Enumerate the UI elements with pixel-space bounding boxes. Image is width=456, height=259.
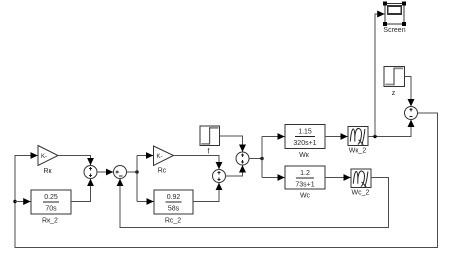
svg-text:Screen: Screen — [383, 27, 405, 34]
sum 2 — [213, 170, 226, 183]
svg-text:z: z — [392, 90, 396, 97]
svg-text:0.25: 0.25 — [44, 194, 58, 201]
wire Wk_2 to sum3 bottom — [368, 120, 411, 137]
svg-text:73s+1: 73s+1 — [295, 182, 314, 189]
wire branch vertical — [136, 156, 138, 202]
wire branch to Wk input — [262, 136, 285, 138]
wire sum2 to sum1 bottom — [226, 165, 243, 176]
svg-text:320s+1: 320s+1 — [293, 140, 316, 147]
transfer function Wc — [285, 166, 325, 200]
svg-text:Rс: Rс — [158, 168, 167, 175]
svg-text:Wс_2: Wс_2 — [352, 190, 370, 197]
wire junction to Rk_2 input — [15, 201, 31, 203]
wire Wc to Wc_2 — [325, 177, 351, 179]
svg-text:Rс_2: Rс_2 — [165, 218, 181, 225]
node branch Wk/Wc — [260, 157, 263, 160]
wire sum3 output to outer feedback loop into Rk — [15, 113, 438, 248]
sum B — [114, 166, 127, 179]
step source z — [384, 67, 405, 98]
wire sumA to sumB — [97, 171, 113, 173]
gain Rc — [154, 146, 174, 175]
svg-text:58s: 58s — [168, 206, 180, 213]
svg-text:K-: K- — [157, 154, 163, 160]
svg-text:Rк_2: Rк_2 — [42, 218, 58, 225]
wire Rc_2 to sum2 bottom — [193, 183, 219, 202]
wire Wc_2 to sumB bottom (inner feedback) — [120, 178, 389, 228]
wire Rk_2 to sumA bottom — [71, 179, 91, 202]
svg-text:f: f — [208, 149, 210, 156]
wire z to sum3 top — [405, 77, 411, 107]
node branch to Screen — [373, 135, 376, 138]
sum 1 — [236, 152, 249, 165]
wire branch to Wc input — [262, 177, 285, 179]
svg-text:Rк: Rк — [43, 168, 52, 175]
wire Rk to sumA top — [58, 156, 91, 166]
step source f — [200, 126, 220, 156]
sum A — [84, 166, 97, 179]
wire branch up to Screen — [375, 14, 385, 137]
transfer function Wk — [285, 125, 325, 160]
svg-text:1.2: 1.2 — [300, 170, 310, 177]
node branch Rc/Rc_2 — [135, 170, 138, 173]
wire branch to Rc input — [137, 155, 153, 157]
transfer function Rk_2 — [31, 190, 71, 225]
transfer function Rc_2 — [154, 190, 193, 225]
signal block Wk_2 — [348, 127, 368, 155]
wire sum1 output to branch — [249, 158, 262, 160]
svg-text:Wк: Wк — [299, 152, 310, 159]
sum 3 — [405, 107, 418, 120]
node junction on left feedback — [13, 200, 16, 203]
svg-text:1.15: 1.15 — [298, 129, 312, 136]
gain Rk — [38, 146, 58, 176]
wire Rc to sum2 top — [174, 156, 220, 170]
wire branch vertical Wk/Wc — [261, 137, 263, 178]
wire branch to Rc_2 input — [137, 201, 154, 203]
wire Wk to Wk_2 — [325, 136, 348, 138]
signal block Wc_2 — [351, 169, 371, 197]
svg-text:70s: 70s — [45, 206, 57, 213]
wire sumB output to branch — [127, 171, 137, 173]
svg-text:K-: K- — [41, 154, 47, 160]
wire f to sum1 top — [220, 136, 243, 152]
svg-text:Wк_2: Wк_2 — [349, 148, 367, 155]
svg-text:0.92: 0.92 — [167, 194, 181, 201]
scope Screen — [383, 2, 406, 35]
svg-text:Wс: Wс — [300, 193, 311, 200]
